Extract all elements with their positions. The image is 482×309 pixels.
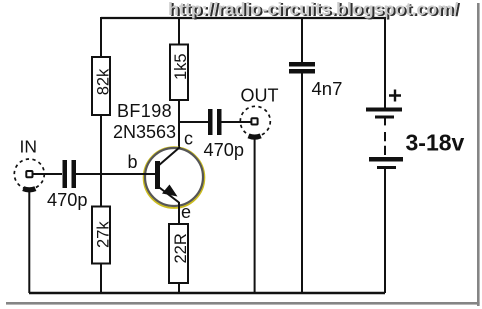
node base junction xyxy=(100,174,102,207)
wire R2 bottom to ground rail xyxy=(100,263,102,293)
url watermark text xyxy=(168,0,460,20)
battery BT1 cell 1 xyxy=(366,108,402,119)
svg-text:22R: 22R xyxy=(172,233,190,263)
wire from rail down to R3 1k5 xyxy=(178,17,180,45)
resistor R3 1k5 xyxy=(170,45,190,101)
wire R1 bottom to base node xyxy=(100,115,102,174)
svg-text:e: e xyxy=(181,202,191,222)
resistor R1 82k xyxy=(92,57,112,115)
page shadow bottom xyxy=(6,302,480,305)
wire R4 bottom to ground rail xyxy=(178,283,180,293)
label IN xyxy=(20,137,38,157)
wire IN to C1 xyxy=(34,173,63,175)
transistor Q1 circle xyxy=(144,147,205,208)
svg-text:470p: 470p xyxy=(47,190,87,210)
transistor Q1 base bar xyxy=(155,161,160,189)
wire IN ground drop xyxy=(28,190,30,293)
capacitor C3 4n7 xyxy=(289,62,315,74)
capacitor C2 470p xyxy=(208,109,222,135)
battery BT1 cell 2 xyxy=(369,157,403,169)
wire OUT ground drop xyxy=(254,138,256,293)
svg-text:OUT: OUT xyxy=(241,86,279,106)
wire ground rail xyxy=(29,292,385,294)
transistor Q1 emitter stroke xyxy=(158,187,179,203)
wire top supply rail xyxy=(101,17,385,19)
svg-text:3-18v: 3-18v xyxy=(406,130,465,156)
transistor Q1 emitter arrow xyxy=(162,185,178,197)
svg-text:470p: 470p xyxy=(204,140,244,160)
page shadow right xyxy=(477,3,480,306)
svg-text:IN: IN xyxy=(20,137,38,157)
wire C2 to OUT xyxy=(222,121,251,123)
battery BT1 plus label xyxy=(389,90,401,102)
svg-text:http://radio-circuits.blogspot: http://radio-circuits.blogspot.com/ xyxy=(168,0,458,19)
node collector to C2 xyxy=(179,121,208,123)
svg-text:1k5: 1k5 xyxy=(172,53,190,80)
capacitor C1 470p xyxy=(63,160,77,188)
svg-text:2N3563: 2N3563 xyxy=(113,122,176,142)
label battery 3-18v xyxy=(406,130,465,156)
pin label b xyxy=(128,152,138,172)
wire from rail down to R1 82k xyxy=(100,17,102,57)
svg-text:4n7: 4n7 xyxy=(312,78,343,99)
label C2 470p xyxy=(204,140,244,160)
wire C3 to ground rail xyxy=(301,73,303,293)
svg-text:82k: 82k xyxy=(94,68,112,95)
wire R3 bottom to collector xyxy=(178,100,180,148)
label BF198 xyxy=(117,101,172,121)
wire emitter to R4 xyxy=(178,202,180,224)
svg-text:c: c xyxy=(184,129,193,149)
wire C1 to base xyxy=(76,173,155,175)
battery BT1 dashed link xyxy=(384,118,386,155)
resistor R4 22R xyxy=(169,224,190,283)
wire battery to ground rail xyxy=(384,169,386,293)
label C3 4n7 xyxy=(312,78,343,99)
label OUT xyxy=(241,86,279,106)
connector J2 OUT xyxy=(240,106,270,137)
label 2N3563 xyxy=(113,122,176,142)
pin label c xyxy=(184,129,193,149)
svg-text:27k: 27k xyxy=(94,221,112,248)
resistor R2 27k xyxy=(92,207,112,264)
transistor Q1 collector stroke xyxy=(158,147,180,166)
connector J1 IN xyxy=(14,159,44,190)
label C1 470p xyxy=(47,190,87,210)
wire rail down to battery xyxy=(384,17,386,108)
pin label e xyxy=(181,202,191,222)
wire rail down to C3 xyxy=(301,17,303,62)
svg-text:b: b xyxy=(128,152,138,172)
svg-text:BF198: BF198 xyxy=(117,101,172,121)
